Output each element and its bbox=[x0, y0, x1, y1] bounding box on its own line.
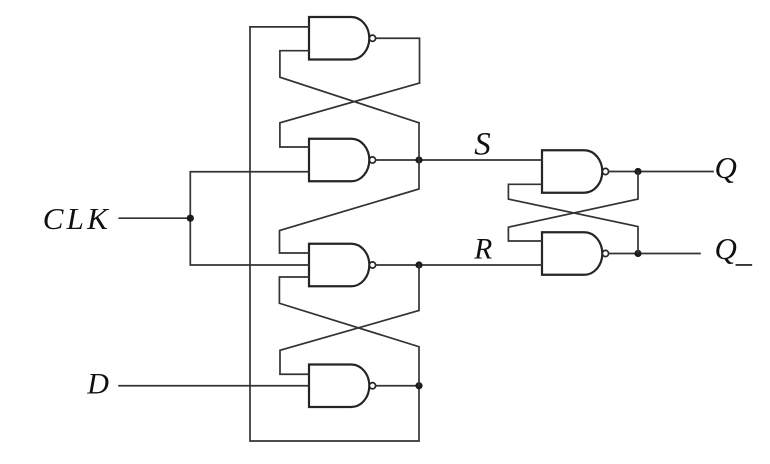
wire U4 output to node bbox=[376, 385, 419, 387]
node R junction dot bbox=[415, 261, 422, 268]
wire U1 top input from left feedback vertical bbox=[250, 26, 309, 28]
wire U2 output to S node to U5 top input bbox=[376, 159, 542, 161]
wire left feedback vertical (U4 output to U1) bbox=[250, 27, 419, 441]
svg-text:Q: Q bbox=[715, 150, 737, 185]
wire diagonal S node to U1 bottom input bbox=[280, 51, 419, 123]
wire Q_ node up then diagonal to U5 bottom input bbox=[508, 184, 638, 253]
wire diagonal U1 output to U2 top input bbox=[280, 83, 420, 147]
wire U6 output to Q_ label bbox=[609, 253, 700, 255]
nand gate U6 (output latch bottom, Q_) bbox=[542, 232, 609, 275]
wire U4 node up then diagonal to U3 bottom input bbox=[279, 277, 419, 386]
node S junction dot bbox=[415, 156, 422, 163]
wire U3 output to R node to U6 bottom input bbox=[376, 264, 542, 266]
wire CLK branch down to U3 middle input bbox=[190, 218, 309, 265]
wire CLK lead from label to junction bbox=[119, 217, 190, 219]
wire CLK branch up to U2 lower input bbox=[190, 172, 309, 218]
svg-text:Q: Q bbox=[715, 231, 737, 266]
nand gate U5 (output latch top, Q) bbox=[542, 150, 609, 193]
node U4 output junction dot bbox=[415, 382, 422, 389]
node Q junction dot bbox=[634, 168, 641, 175]
wire U5 output to Q label bbox=[609, 171, 713, 173]
svg-text:D: D bbox=[86, 367, 109, 400]
node CLK junction dot bbox=[187, 215, 194, 222]
wire S node up bbox=[418, 123, 420, 160]
node Q_ junction dot bbox=[634, 250, 641, 257]
nand gate U1 (top) bbox=[309, 17, 376, 60]
nand gate U3 (R gate) bbox=[309, 244, 376, 287]
nand gate U4 (bottom, D input) bbox=[309, 365, 376, 408]
nand gate U2 (S gate) bbox=[309, 139, 376, 182]
svg-text:S: S bbox=[474, 126, 491, 162]
wire U1 output right then down bbox=[376, 38, 420, 83]
wire Q node down then diagonal to U6 top input bbox=[508, 172, 638, 242]
wire D input line to U4 bbox=[119, 385, 309, 387]
wire S node down then diagonal to U3 top input bbox=[280, 160, 420, 253]
svg-text:R: R bbox=[473, 233, 492, 265]
wire R node down then diagonal to U4 top input bbox=[280, 265, 419, 374]
svg-text:CLK: CLK bbox=[43, 201, 111, 236]
